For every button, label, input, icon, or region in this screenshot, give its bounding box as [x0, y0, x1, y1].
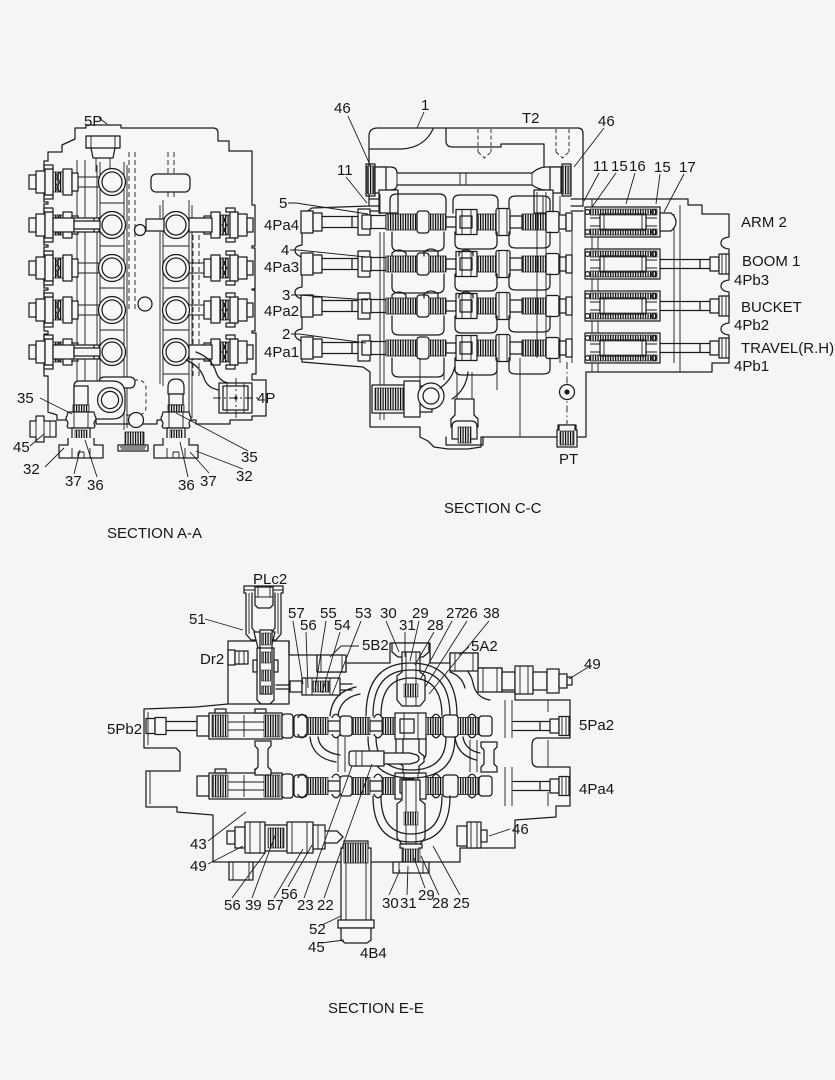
bolt foot right	[154, 405, 198, 458]
beam posts	[379, 190, 398, 213]
svg-text:4Pb2: 4Pb2	[734, 317, 769, 334]
pilot parts cluster 53-57	[290, 681, 302, 692]
bottom mushroom fitting	[452, 421, 477, 439]
bolt hole dashed 1	[478, 129, 491, 158]
leader 35 L	[40, 398, 72, 414]
46 fitting bottom right	[457, 822, 487, 848]
leader 28 b	[421, 856, 439, 895]
svg-text:49: 49	[190, 858, 207, 875]
leader 55	[315, 621, 326, 690]
top arch outer	[366, 663, 457, 716]
leader 5P	[99, 118, 107, 124]
right inter-row bone	[481, 742, 497, 772]
svg-text:Dr2: Dr2	[200, 651, 224, 668]
leader 2	[291, 334, 366, 343]
bolt hole dashed 2	[556, 129, 569, 158]
svg-text:35: 35	[17, 390, 34, 407]
svg-text:51: 51	[189, 611, 206, 628]
inter-row arches 1-2	[392, 232, 550, 251]
svg-text:SECTION C-C: SECTION C-C	[444, 500, 542, 517]
bottom port stem	[451, 399, 478, 427]
right extension block inner verticals	[592, 199, 680, 372]
5A2 block	[450, 653, 478, 671]
svg-text:3: 3	[282, 287, 290, 304]
valve body E-E main outline	[144, 641, 570, 862]
row2 arm extension	[74, 221, 100, 229]
svg-text:43: 43	[190, 836, 207, 853]
svg-text:32: 32	[23, 461, 40, 478]
svg-text:4Pb3: 4Pb3	[734, 272, 769, 289]
leader 49 R	[569, 666, 590, 679]
PT fitting	[557, 425, 577, 447]
row5 arm extension	[74, 348, 100, 356]
leader 45	[30, 434, 44, 446]
top beam	[378, 167, 564, 190]
svg-text:TRAVEL(R.H): TRAVEL(R.H)	[741, 340, 834, 357]
drain ball circle	[418, 383, 444, 409]
svg-text:ARM 2: ARM 2	[741, 214, 787, 231]
port circle R4	[163, 339, 190, 366]
small hole b	[138, 297, 152, 311]
leader 43	[208, 812, 246, 841]
svg-text:5P: 5P	[84, 113, 102, 130]
PLc2 lower body	[257, 648, 274, 704]
leader 45 b	[321, 940, 344, 943]
inter-row webs	[338, 737, 477, 772]
svg-text:4Pa4: 4Pa4	[264, 217, 299, 234]
svg-text:4Pb1: 4Pb1	[734, 358, 769, 375]
svg-text:5: 5	[279, 195, 287, 212]
svg-text:32: 32	[236, 468, 253, 485]
leader 5B2	[330, 646, 359, 657]
leader 56 b2	[288, 845, 312, 887]
hidden pad dashed	[98, 380, 146, 415]
svg-text:56: 56	[281, 886, 298, 903]
leader 15	[592, 173, 616, 207]
body verticals	[380, 192, 572, 437]
svg-text:4Pa4: 4Pa4	[579, 781, 614, 798]
top tower cap	[392, 643, 429, 657]
right row2 arm	[189, 218, 212, 232]
port circle R1	[163, 212, 190, 239]
leader 3	[291, 295, 368, 300]
bottom tower cap	[400, 844, 422, 862]
bottom striped pad	[125, 432, 144, 445]
4P duct curve	[186, 352, 228, 390]
leader 52	[322, 916, 341, 925]
svg-text:5B2: 5B2	[362, 637, 389, 654]
left fitting row4	[29, 293, 78, 327]
port circle L2	[99, 212, 126, 239]
inter-row arches 3-4	[392, 316, 550, 335]
leader 29 t	[410, 621, 419, 661]
strip webs	[100, 203, 189, 374]
below row 4 arches	[392, 358, 550, 377]
svg-text:45: 45	[308, 939, 325, 956]
row2 arm bar	[53, 218, 99, 232]
top block inner curve right	[446, 129, 544, 166]
leader 27	[420, 621, 452, 680]
leader 46 TL	[348, 116, 371, 167]
spool row 4	[301, 335, 572, 362]
port circle R3	[163, 297, 190, 324]
leader 11 R	[584, 173, 599, 201]
svg-text:31: 31	[400, 895, 417, 912]
port circle R2	[163, 255, 190, 282]
46 plug left collar	[375, 167, 386, 193]
hidden line pair center	[129, 152, 135, 310]
leader 4	[290, 250, 366, 257]
svg-text:37: 37	[65, 473, 82, 490]
svg-text:35: 35	[241, 449, 258, 466]
port bay blocks	[358, 209, 370, 361]
leader 26	[425, 621, 467, 687]
svg-text:PT: PT	[559, 451, 578, 468]
row stems	[78, 177, 206, 315]
bottom boss link	[74, 381, 125, 419]
leader 31 b	[407, 866, 408, 895]
leader 32 R	[196, 451, 243, 469]
leader 35 R	[176, 413, 248, 451]
left fitting row3	[29, 251, 78, 285]
right row5 arm	[189, 345, 212, 359]
svg-text:30: 30	[380, 605, 397, 622]
46 plug left	[366, 164, 375, 196]
right bolt dome	[168, 379, 184, 394]
cylinder row 4 (TRAVEL)	[585, 333, 660, 363]
right fitting row4	[204, 293, 253, 327]
svg-text:4Pa3: 4Pa3	[264, 259, 299, 276]
leader 57 b	[274, 849, 303, 898]
4P centerlines	[213, 378, 258, 418]
mid bone link	[398, 739, 424, 773]
top arch inner	[381, 678, 442, 716]
bolt foot left	[59, 405, 103, 458]
leader 17	[664, 174, 684, 212]
port circle L5	[99, 339, 126, 366]
PLc2 stem	[254, 632, 275, 648]
left flange inner line	[148, 712, 150, 804]
svg-text:BOOM 1: BOOM 1	[742, 253, 800, 270]
svg-text:16: 16	[629, 158, 646, 175]
leader 30 b	[389, 870, 400, 895]
leader 49 L	[208, 846, 243, 864]
leader 22	[324, 764, 372, 898]
PT circle	[560, 385, 575, 400]
PLc2 spool	[260, 630, 272, 694]
svg-text:56: 56	[224, 897, 241, 914]
left fitting row5	[29, 335, 78, 369]
svg-text:T2: T2	[522, 110, 540, 127]
57 part with arrow tip	[313, 825, 343, 849]
leader 36 R	[180, 442, 188, 477]
svg-text:52: 52	[309, 921, 326, 938]
leader 32 L	[45, 448, 64, 467]
spool row 2	[301, 251, 572, 278]
pilot link rod	[276, 684, 352, 690]
svg-text:38: 38	[483, 605, 500, 622]
left bolt tube	[74, 386, 88, 405]
svg-text:PLc2: PLc2	[253, 571, 287, 588]
svg-text:4Pa2: 4Pa2	[264, 303, 299, 320]
left fitting row1	[29, 165, 78, 199]
11 plug flange left	[369, 199, 381, 211]
cartridge 22/23	[349, 751, 384, 766]
leader 11 L	[346, 177, 367, 203]
svg-text:4: 4	[281, 242, 289, 259]
leader 54	[322, 632, 340, 693]
row5 arm bar	[53, 345, 99, 359]
leader 46 TR	[574, 128, 604, 167]
5P stub	[86, 136, 120, 158]
bottom circle b	[129, 413, 144, 428]
top tower neck	[397, 652, 425, 706]
5P stub inner	[91, 136, 115, 172]
svg-text:46: 46	[334, 100, 351, 117]
inner rail left pair	[77, 160, 85, 418]
row2 pin circle	[135, 225, 146, 236]
cylinder row 2 (BOOM1)	[585, 249, 660, 279]
leader 5A2	[459, 647, 469, 655]
svg-text:28: 28	[432, 895, 449, 912]
leader 25	[433, 846, 460, 895]
valve body C-C main outline	[295, 128, 729, 449]
leader 16	[626, 173, 635, 204]
top rounded boss	[151, 174, 190, 192]
svg-text:11: 11	[337, 162, 353, 179]
svg-text:26: 26	[461, 605, 478, 622]
leader 56 b1	[232, 853, 265, 898]
svg-text:SECTION E-E: SECTION E-E	[328, 1000, 424, 1017]
svg-text:39: 39	[245, 897, 262, 914]
PLc2 pilot valve cap	[244, 586, 283, 640]
leader 29 b	[414, 858, 425, 888]
inter-row arches 2-3	[392, 274, 550, 293]
svg-text:30: 30	[382, 895, 399, 912]
port circle L3	[99, 255, 126, 282]
drain elbow pipe	[440, 366, 468, 399]
5B2 block	[317, 655, 346, 672]
leader 23	[304, 766, 352, 898]
upper-left block outline	[228, 641, 289, 704]
PLc2 inner plug	[255, 587, 273, 608]
spool row 3	[301, 293, 572, 320]
svg-text:46: 46	[512, 821, 529, 838]
svg-text:17: 17	[679, 159, 696, 176]
right fitting row3	[204, 251, 253, 285]
mid duct arcs	[368, 737, 455, 778]
leader 15 b	[656, 174, 660, 204]
leader 1	[417, 112, 424, 128]
svg-text:4P: 4P	[257, 390, 275, 407]
right fitting row2	[204, 208, 253, 242]
leader 51	[205, 619, 243, 630]
11 plug flange right	[571, 199, 583, 211]
left duct arc	[330, 687, 360, 716]
drain cartridge cap	[404, 381, 432, 417]
svg-text:15: 15	[611, 158, 628, 175]
mid left duct	[310, 737, 340, 762]
leader 38	[429, 621, 489, 694]
PT line dash-dot	[566, 362, 568, 424]
bottom left drain cartridge	[372, 385, 417, 413]
cylinder row 1 (ARM2)	[585, 207, 660, 237]
leader 5	[288, 203, 368, 214]
leader 30 t	[386, 621, 399, 652]
svg-text:2: 2	[282, 326, 290, 343]
svg-text:1: 1	[421, 97, 429, 114]
left fitting row2	[29, 208, 78, 242]
spool row 1 E-E	[146, 709, 569, 739]
PLc2 inner walls	[252, 593, 275, 632]
svg-text:37: 37	[200, 473, 217, 490]
svg-text:4Pa1: 4Pa1	[264, 344, 299, 361]
43/49 cartridge bottom left	[227, 822, 313, 853]
hidden line pair right	[168, 152, 199, 378]
rounded pad 39	[99, 377, 135, 388]
inner rail columns	[97, 162, 192, 430]
U duct under row1	[396, 739, 426, 760]
svg-text:4B4: 4B4	[360, 945, 387, 962]
port circle L1	[99, 169, 126, 196]
49 cartridge right	[478, 666, 572, 694]
svg-text:BUCKET: BUCKET	[741, 299, 802, 316]
leader 39	[252, 833, 276, 898]
46 plug right collar	[550, 167, 561, 193]
leader 28 t	[415, 632, 434, 665]
leader 37 L	[74, 450, 80, 474]
46 plug right	[562, 164, 571, 196]
E-E right port inner lines	[505, 700, 548, 806]
stem lines above bottom port	[457, 372, 472, 399]
4P boss	[219, 383, 252, 413]
svg-text:23: 23	[297, 897, 314, 914]
leader 56 t	[306, 632, 308, 688]
svg-text:53: 53	[355, 605, 372, 622]
leader 36 L	[85, 440, 97, 477]
right fitting row5 big	[204, 335, 253, 369]
leader 31 t	[404, 632, 406, 657]
leader 57 t	[293, 621, 303, 684]
leader 53	[332, 621, 361, 695]
cylinder row 3 (BUCKET)	[585, 291, 660, 321]
Dr2 plug	[228, 650, 235, 665]
svg-text:28: 28	[427, 617, 444, 634]
svg-text:36: 36	[87, 477, 104, 494]
leader 46 b	[489, 829, 510, 836]
svg-text:45: 45	[13, 439, 30, 456]
spool row 2 E-E	[197, 769, 569, 799]
bottom feet pad	[229, 862, 253, 880]
svg-text:46: 46	[598, 113, 615, 130]
svg-text:49: 49	[584, 656, 601, 673]
svg-text:SECTION A-A: SECTION A-A	[107, 525, 202, 542]
top block inner curve left	[370, 129, 433, 149]
leader 37 R	[190, 452, 209, 473]
bottom-left fitting 45	[30, 416, 56, 442]
svg-text:36: 36	[178, 477, 195, 494]
svg-text:22: 22	[317, 897, 334, 914]
svg-text:5A2: 5A2	[471, 638, 498, 655]
arch row motif 1	[390, 194, 550, 213]
svg-text:15: 15	[654, 159, 671, 176]
svg-text:56: 56	[300, 617, 317, 634]
svg-text:54: 54	[334, 617, 351, 634]
bottom arch	[373, 796, 450, 842]
svg-text:5Pb2: 5Pb2	[107, 721, 142, 738]
port circle L4	[99, 297, 126, 324]
bottom foot notch	[446, 437, 483, 445]
svg-text:25: 25	[453, 895, 470, 912]
bottom tower neck	[397, 780, 425, 844]
left inter-row bone	[255, 741, 271, 775]
row2 link rod	[146, 219, 164, 231]
spool row 1	[301, 209, 572, 236]
svg-text:5Pa2: 5Pa2	[579, 717, 614, 734]
right duct arc	[450, 663, 490, 700]
svg-text:11: 11	[593, 158, 609, 175]
4B4 cylinder	[338, 841, 374, 943]
valve body A-A outline	[44, 125, 266, 424]
right duct curls	[455, 737, 480, 760]
